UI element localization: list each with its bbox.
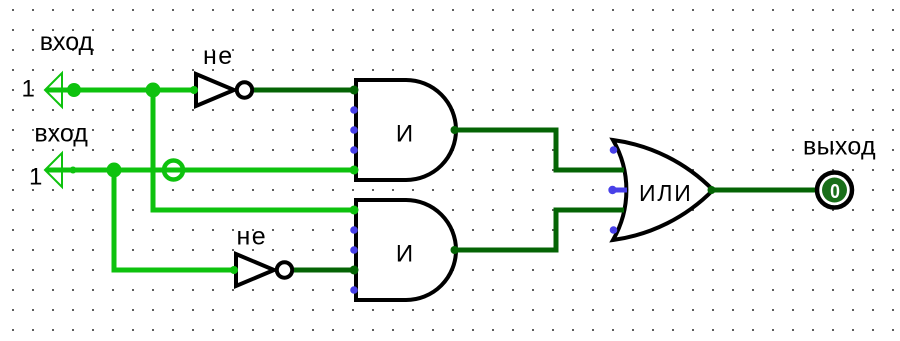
wire from pin 2 to AND U3 (value 1)	[46, 168, 358, 173]
svg-text:вход: вход	[40, 28, 94, 56]
svg-text:И: И	[396, 240, 413, 267]
not gate U1 (не) triangle	[196, 74, 234, 106]
AND U4 unconnected input dot 1	[350, 226, 358, 234]
wire vertical from node A down to AND U4 row	[153, 90, 358, 210]
wire NOT U1 output to AND U3 (value 0)	[254, 88, 358, 93]
pin 1 port dot	[67, 83, 81, 97]
wire from pin 1 to NOT U1 (value 1)	[46, 88, 196, 93]
AND U3 unconnected input dot 1	[350, 106, 358, 114]
NOT U2 input port dot	[230, 266, 238, 274]
not gate U2 (не) triangle	[236, 254, 274, 286]
and gate U4 (И) body	[356, 200, 456, 300]
AND U4 input port dot pin4	[350, 266, 359, 275]
svg-text:не: не	[237, 223, 268, 251]
wire NOT U2 output to AND U4 (value 0)	[294, 268, 358, 273]
AND U4 output port dot	[451, 246, 459, 254]
svg-text:1: 1	[29, 164, 42, 191]
wire AND U3 output to OR U5 (value 0)	[456, 130, 624, 170]
AND U4 input port dot pin1	[350, 206, 359, 215]
input pin 1 triangle	[45, 73, 62, 107]
NOT U1 input port dot	[190, 86, 198, 94]
svg-text:ИЛИ: ИЛИ	[639, 180, 693, 206]
svg-text:выход: выход	[803, 133, 876, 161]
output pin value disc	[822, 178, 847, 203]
OR U5 unconnected input dot 2	[608, 186, 616, 194]
AND U3 input port dot pin1	[350, 86, 359, 95]
AND U3 output port dot	[451, 126, 459, 134]
svg-text:И: И	[396, 120, 413, 147]
AND U3 input port dot pin5	[350, 166, 359, 175]
OR U5 unconnected input dot 3	[610, 226, 618, 234]
pin 2 port nub	[70, 167, 77, 174]
ring marker on wire row 2	[164, 161, 183, 180]
AND U4 unconnected input dot 3	[350, 286, 358, 294]
OR U5 output port dot	[708, 186, 716, 194]
svg-text:не: не	[203, 42, 234, 70]
wire OR U5 output to output pin (value 0)	[713, 188, 817, 193]
svg-text:0: 0	[830, 181, 840, 203]
not gate U2 bubble	[277, 262, 292, 277]
svg-text:вход: вход	[34, 120, 88, 148]
or gate U5 (ИЛИ) body	[613, 140, 713, 240]
wire AND U4 output to OR U5 (value 0)	[456, 210, 624, 250]
OR U5 unconnected input stub 2	[613, 188, 627, 193]
junction node A	[146, 83, 161, 98]
not gate U1 bubble	[237, 82, 252, 97]
AND U4 unconnected input dot 2	[350, 246, 358, 254]
input pin 2 triangle	[45, 153, 62, 187]
junction node B	[107, 163, 122, 178]
wire vertical from node B down to NOT U2	[114, 170, 236, 270]
OR U5 unconnected input dot 1	[610, 146, 618, 154]
output pin ring	[817, 173, 852, 208]
svg-text:1: 1	[22, 76, 35, 103]
AND U3 unconnected input dot 2	[350, 126, 358, 134]
AND U3 unconnected input dot 3	[350, 146, 358, 154]
and gate U3 (И) body	[356, 80, 456, 180]
